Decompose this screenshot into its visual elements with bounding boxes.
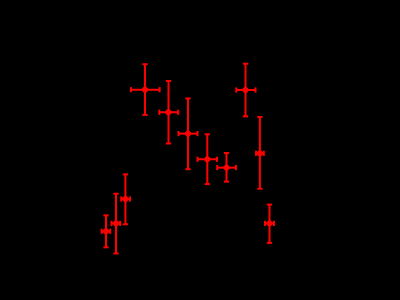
- data point P8 error bars and marker: [265, 205, 274, 243]
- data point P7 error bars and marker: [256, 117, 264, 189]
- data point P3 error bars and marker: [179, 99, 198, 170]
- data point P4 error bars and marker: [198, 134, 218, 184]
- data point P5 error bars and marker: [217, 153, 236, 182]
- data point P6 error bars and marker: [236, 64, 255, 117]
- data point P2 error bars and marker: [159, 81, 178, 144]
- data point P10 error bars and marker: [121, 174, 130, 224]
- data point P11 error bars and marker: [112, 194, 121, 254]
- data point P1 error bars and marker: [131, 64, 160, 115]
- data point P9 error bars and marker: [102, 215, 111, 247]
